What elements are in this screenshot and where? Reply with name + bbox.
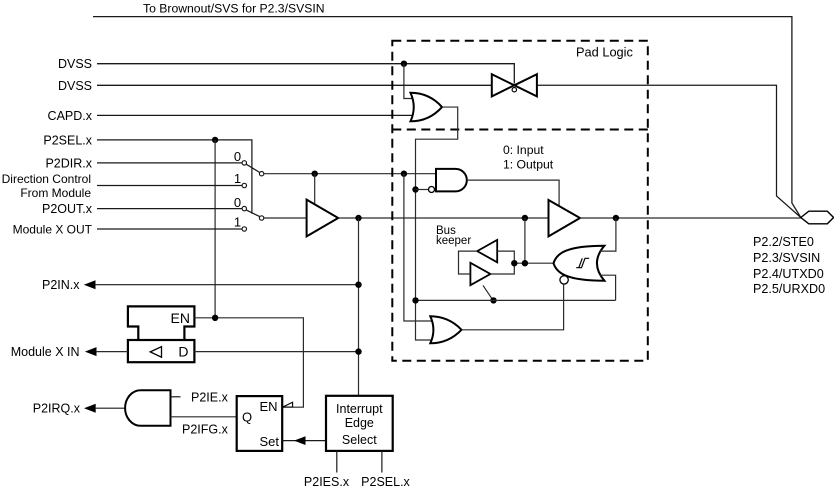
junction direction/box OR [401,171,407,177]
latch output triangle symbol [150,347,161,358]
wire Set from edge select [282,440,326,442]
transmission gate T1 bubble [512,88,516,92]
wire schmitt output to keeper [514,262,553,264]
wire direction to lower OR top input [404,174,433,321]
and-gate U2 direction decode [436,169,467,192]
svg-text:EN: EN [171,310,190,326]
or-gate U3 schmitt input gate (left facing) [554,246,605,281]
wire keeper loop right [490,251,514,274]
wire P2IE.x stub [171,396,181,398]
svg-text:P2.2/STE0: P2.2/STE0 [753,235,814,249]
wire pad signal vertical to P2IN, D and edge select [358,218,360,396]
wire CAPD.x to pad-logic OR bottom input [97,114,414,116]
svg-text:0: 0 [234,149,241,164]
wire P2DIR.x to mux contact 0 [97,162,242,164]
svg-text:P2IE.x: P2IE.x [191,390,229,404]
wire P2IN.x [95,284,359,286]
wire AND output to driver2 enable [467,180,559,206]
pad hexagon [801,211,834,224]
svg-text:DVSS: DVSS [58,79,92,93]
dashed outer box [392,41,648,361]
arrow P2IN.x [84,280,96,289]
wire to brownout/SVS from pad [93,17,801,218]
switch SW1 blade [246,164,260,172]
wire direction control to mux contact 1 [97,185,242,187]
svg-text:0: Input: 0: Input [503,143,544,157]
svg-text:P2SEL.x: P2SEL.x [43,133,92,147]
wire transmission gate to pad [537,85,801,217]
svg-text:EN: EN [259,399,277,414]
wire latch D input [194,351,358,353]
junction D/pad vertical [355,348,361,354]
wire DVSS2 into transmission gate [97,84,492,86]
svg-text:Pad Logic: Pad Logic [576,45,634,60]
wire keeper enable horizontal [416,299,616,301]
buffer driver1 [307,200,339,237]
wire schmitt top input from main [600,218,616,251]
transmission gate T1 right triangle [514,74,537,96]
junction P2SEL/latch-EN [212,137,218,143]
junction main/schmitt input [613,215,619,221]
wire P2IES.x stub [336,451,338,473]
and-gate U5 interrupt AND (left facing) [125,390,170,426]
svg-text:From Module: From Module [20,186,91,200]
junction keeper vertical [522,260,528,266]
wire Module X IN [96,351,128,353]
svg-text:1: Output: 1: Output [503,158,554,172]
svg-text:0: 0 [234,195,241,210]
latch L1 D box [128,340,194,362]
wire pad-logic OR output to AND bubble and lower OR [416,107,458,340]
switch SW1 direction mux contact 0 [242,161,246,165]
switch SW2 blade [246,210,260,217]
junction main/bus keeper vertical [522,215,528,221]
junction keeper enable [490,297,496,303]
wire main pad line right to pad [580,217,801,219]
dashed divider pad logic [392,129,648,131]
svg-text:1: 1 [234,171,241,186]
svg-text:P2.4/UTXD0: P2.4/UTXD0 [753,267,824,281]
wire DVSS1 to pad-logic OR top input [404,64,414,99]
wire direction line from SW1 pole to AND gate [264,173,436,175]
wire latch EN to FF EN [194,318,303,407]
svg-text:DVSS: DVSS [58,57,92,71]
svg-text:keeper: keeper [436,235,471,247]
junction keeper loop [511,260,517,266]
wire P2SEL.x stub [381,451,383,473]
svg-text:Set: Set [259,434,279,449]
svg-text:P2OUT.x: P2OUT.x [42,202,93,216]
wire schmitt bottom input [600,275,616,300]
wire P2OUT.x to mux contact 0 [97,208,242,210]
svg-text:Interrupt: Interrupt [336,402,383,416]
svg-text:Q: Q [242,410,252,425]
svg-text:P2IFG.x: P2IFG.x [182,422,229,436]
junction P2IN/pad vertical [355,282,361,288]
wire driver1 enable [314,174,316,205]
junction enable/vertical [412,297,418,303]
or-gate U1 pad-logic OR [411,93,443,122]
junction DVSS1/OR input [401,61,407,67]
junction latch EN/P2SEL [212,315,218,321]
buffer keeper top (left facing) [477,240,497,262]
arrow P2IRQ.x [84,404,96,413]
svg-text:CAPD.x: CAPD.x [48,109,93,123]
svg-text:P2DIR.x: P2DIR.x [45,156,92,170]
svg-text:P2IN.x: P2IN.x [42,278,80,292]
block Interrupt Edge Select [326,396,393,451]
svg-text:P2IES.x: P2IES.x [304,475,350,489]
svg-text:Direction Control: Direction Control [2,172,91,186]
svg-text:P2.3/SVSIN: P2.3/SVSIN [753,251,820,265]
or-gate U4 lower OR [430,316,461,343]
wire DVSS1 to transmission gate control [97,64,514,84]
latch L1 EN box [128,306,194,340]
arrow Module X IN [85,347,97,356]
svg-text:Module X OUT: Module X OUT [13,223,93,237]
switch SW1 pole [259,172,263,176]
flip-flop FF1 box [237,396,283,451]
buffer keeper bottom (right facing) [470,263,490,285]
svg-text:To Brownout/SVS for P2.3/SVSIN: To Brownout/SVS for P2.3/SVSIN [143,2,325,16]
svg-text:Edge: Edge [345,416,374,430]
wire keeper loop left [459,251,478,274]
switch SW1 direction mux contact 1 [242,183,246,187]
bubble AND input [429,187,435,193]
junction main/P2IN vertical [355,215,361,221]
switch SW2 output mux contact 1 [242,227,246,231]
wire SW2 pole to driver1 [264,217,307,219]
wire P2IRQ.x [95,407,125,409]
svg-text:Select: Select [342,433,377,447]
wire main to bus keeper node [524,218,526,263]
wire lower OR output to schmitt bubble [462,284,564,330]
junction OR output/AND bubble [412,186,418,192]
buffer driver2 output driver [549,200,581,236]
wire P2SEL to latch EN [214,140,216,318]
bubble schmitt enable input [560,276,568,284]
wire to AND gate bubble [416,189,429,191]
transmission gate T1 left triangle [492,74,515,96]
svg-text:D: D [178,344,188,360]
wire main pad line left [338,217,548,219]
svg-text:Module X IN: Module X IN [11,345,80,359]
svg-text:P2IRQ.x: P2IRQ.x [33,402,81,416]
wire Module X OUT to mux contact 1 [97,228,242,230]
arrow Set input [294,436,306,445]
svg-text:P2SEL.x: P2SEL.x [361,475,410,489]
svg-text:1: 1 [234,215,241,230]
switch SW2 output mux contact 0 [242,206,246,210]
hysteresis symbol [576,258,589,267]
svg-text:P2.5/URXD0: P2.5/URXD0 [753,282,825,296]
wire P2IFG.x from FF Q [171,416,237,418]
junction direction/driver1 enable [312,171,318,177]
switch SW2 pole [259,216,263,220]
wire P2SEL.x to mux select [97,140,252,214]
flip-flop EN triangle marker [283,402,293,407]
wire keeper enable diagonal [483,285,493,299]
